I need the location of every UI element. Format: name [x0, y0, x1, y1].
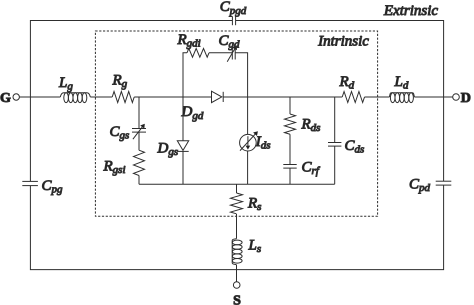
wire Rg to Dgd (node at x=139, x=183)	[134, 96, 211, 98]
wire Lg to Rg	[90, 96, 112, 98]
capacitor C_gs (variable, slash arrow)	[132, 124, 146, 140]
svg-text:Rd: Rd	[339, 74, 355, 92]
svg-text:Dgs: Dgs	[157, 140, 179, 158]
svg-text:Ids: Ids	[255, 134, 271, 152]
svg-text:Ls: Ls	[248, 238, 262, 256]
wire C_ds to bottom rail	[334, 146, 336, 184]
svg-text:S: S	[233, 293, 241, 305]
svg-text:Cpgd: Cpgd	[220, 0, 247, 17]
bottom rail of intrinsic circuit	[139, 183, 335, 185]
svg-text:Rds: Rds	[301, 116, 321, 134]
svg-text:Cds: Cds	[345, 138, 365, 156]
inductor L_g	[60, 93, 90, 103]
capacitor C_pg (plates across left edge)	[22, 181, 38, 185]
wire L_s to S terminal	[236, 265, 238, 282]
svg-text:Dgd: Dgd	[181, 104, 204, 122]
svg-text:Rgsi: Rgsi	[103, 159, 126, 177]
diode D_gs branch wire	[182, 97, 184, 141]
R_ds branch: wire from main line	[289, 97, 291, 114]
svg-text:Rg: Rg	[112, 72, 128, 90]
svg-text:D: D	[461, 91, 471, 106]
capacitor C_pgd (plates in top edge)	[232, 16, 235, 25]
wire Rd to Ld	[365, 96, 390, 98]
C_ds branch: wire from main line	[334, 97, 336, 142]
outer extrinsic box (with gaps for Cpgd, Cpg, Cpd)	[30, 21, 443, 270]
resistor R_s	[231, 193, 243, 214]
svg-text:Intrinsic: Intrinsic	[317, 33, 369, 49]
wire rail to R_s	[236, 184, 238, 193]
svg-text:Cgd: Cgd	[219, 33, 241, 51]
wire Ld to D terminal	[414, 96, 452, 98]
resistor R_ds	[285, 114, 296, 134]
wire Dgd to Rd (nodes at x=247.6, 290, 334.7)	[223, 96, 342, 98]
terminal D	[453, 94, 460, 101]
capacitor C_gd (variable, slash arrow)	[227, 45, 237, 62]
svg-text:G: G	[0, 91, 11, 106]
gate branch: wire node to C_gs	[138, 97, 140, 128]
svg-text:Extrinsic: Extrinsic	[383, 3, 438, 19]
resistor R_gdi	[187, 48, 209, 57]
svg-text:Ld: Ld	[394, 74, 409, 92]
terminal G	[13, 94, 19, 100]
wire R_ds to C_rf	[289, 134, 291, 164]
svg-text:Cgs: Cgs	[110, 124, 130, 142]
svg-text:Cpd: Cpd	[409, 177, 431, 195]
inductor L_s	[232, 239, 242, 265]
svg-text:Rs: Rs	[247, 196, 261, 214]
svg-text:Rgdi: Rgdi	[177, 32, 201, 50]
wire D_gs to bottom rail	[182, 151, 184, 184]
wire Cgd to right vertical of top branch	[235, 53, 247, 97]
capacitor C_pd (plates across right edge)	[436, 181, 452, 185]
intrinsic dashed box	[95, 31, 377, 216]
current source I_ds (circle, down arrow, variable slash arrow)	[240, 131, 258, 151]
terminal S	[233, 282, 240, 289]
diode D_gs	[177, 141, 188, 152]
wire R_gsi to bottom rail	[138, 176, 140, 185]
svg-text:Crf: Crf	[302, 160, 321, 178]
svg-text:Cpg: Cpg	[42, 178, 64, 196]
wire I_ds to bottom rail	[247, 151, 249, 184]
inductor L_d	[389, 93, 414, 103]
resistor R_g	[112, 92, 134, 103]
wire R_s to L_s	[236, 214, 238, 239]
svg-text:Lg: Lg	[58, 75, 73, 93]
feedback top branch: left vertical + lead	[183, 53, 187, 97]
current source I_ds branch: wire from main line	[247, 97, 249, 134]
resistor R_d	[342, 92, 364, 103]
wire C_rf to bottom rail	[289, 168, 291, 184]
resistor R_gsi	[134, 150, 145, 175]
diode D_gd	[212, 91, 224, 102]
wire Rgdi to Cgd	[209, 52, 232, 54]
capacitor C_rf	[283, 165, 296, 169]
capacitor C_ds	[328, 143, 341, 147]
wire C_gs to R_gsi	[138, 132, 140, 150]
wire G to Lg	[19, 96, 60, 98]
